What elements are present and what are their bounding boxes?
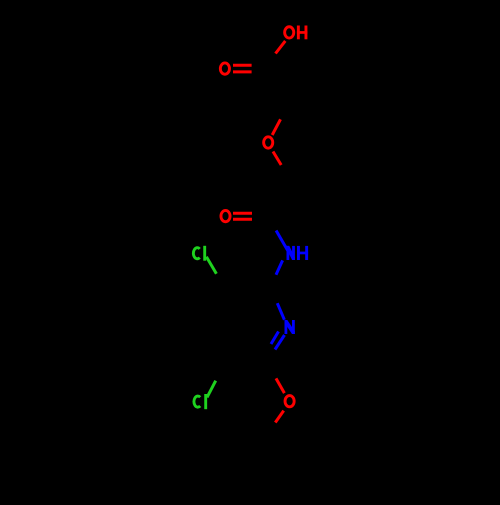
wire bond C1=O lower line	[233, 70, 252, 73]
atom label N1 ring nitrogen	[285, 320, 295, 334]
atom label H of carboxyl OH	[297, 26, 308, 40]
atom label O amide carbonyl	[221, 210, 230, 221]
wire bond O-CH2 lower (red half)	[273, 152, 281, 166]
wire bond amide C=O upper line	[233, 212, 252, 215]
atom label O ether (upper)	[264, 137, 273, 148]
wire bond C1-OH (red half)	[276, 41, 286, 54]
wire bond amide C=O lower line	[233, 218, 252, 221]
wire bond N1=C6 inner line (blue half)	[271, 332, 279, 345]
wire bond C5-Cl bottom (green half)	[207, 381, 216, 398]
atom label Cl bottom (C5 chlorine)	[194, 394, 206, 409]
wire bond O-CH2 ethoxy (red half)	[275, 411, 283, 423]
atom label N of amide NH	[287, 246, 295, 260]
wire bond CH2-O upper (red half)	[272, 119, 280, 135]
atom label H of amide NH	[297, 246, 308, 260]
atom label O carboxyl double-bond oxygen	[220, 63, 229, 74]
wire bond C6-O ethoxy (red half)	[276, 378, 284, 393]
wire bond N1=C6 main line (blue half)	[275, 335, 285, 350]
wire bond amideC-N (blue half)	[276, 231, 288, 252]
atom label O of carboxyl OH	[285, 27, 294, 38]
wire bond C3-Cl top (green half)	[206, 257, 216, 274]
atom label Cl top (C3 chlorine)	[193, 246, 204, 261]
wire bond C1=O upper line	[233, 64, 252, 67]
atom label O ethoxy	[285, 396, 294, 407]
wire bond C2-N1 ring (blue half)	[277, 303, 284, 320]
wire bond N-C2 ring (blue half)	[276, 260, 283, 274]
